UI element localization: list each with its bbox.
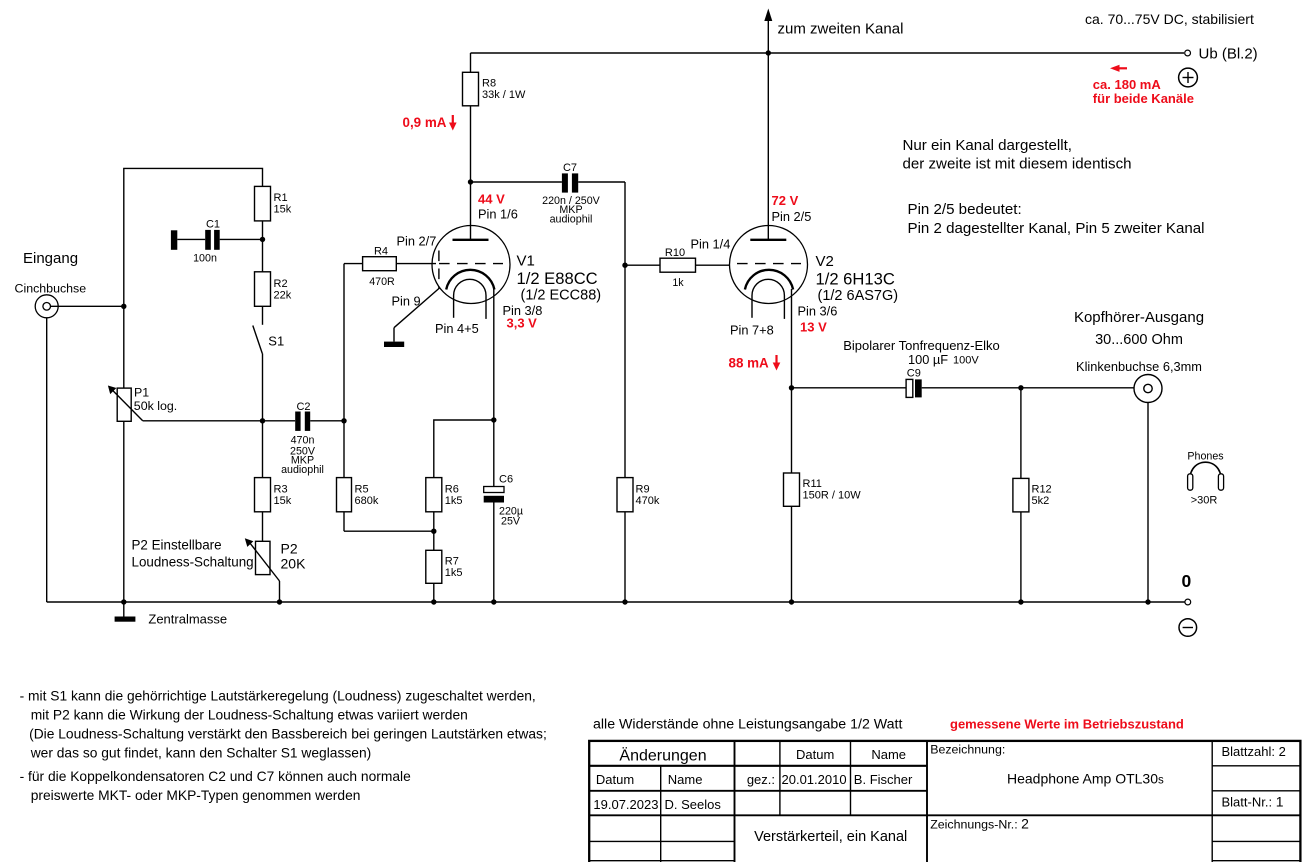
svg-text:1/2 6H13C: 1/2 6H13C xyxy=(816,270,895,289)
svg-text:preiswerte MKT- oder MKP-Typen: preiswerte MKT- oder MKP-Typen genommen … xyxy=(31,788,361,803)
svg-text:Kopfhörer-Ausgang: Kopfhörer-Ausgang xyxy=(1074,309,1204,326)
note resistor wattage xyxy=(593,717,902,733)
svg-text:100V: 100V xyxy=(953,354,979,366)
svg-text:Name: Name xyxy=(668,772,703,787)
svg-text:Pin 4+5: Pin 4+5 xyxy=(435,321,479,336)
svg-text:Pin 2/5: Pin 2/5 xyxy=(772,209,812,224)
svg-text:Pin 2/5 bedeutet:: Pin 2/5 bedeutet: xyxy=(908,201,1022,218)
svg-text:19.07.2023: 19.07.2023 xyxy=(593,797,658,812)
label P2 loudness xyxy=(132,538,254,570)
V1 grid (dashed) xyxy=(439,251,503,290)
V2 heater xyxy=(752,279,784,319)
svg-text:72 V: 72 V xyxy=(772,193,799,208)
labels tube V1 xyxy=(392,192,602,337)
label headphone output xyxy=(1074,309,1204,374)
svg-text:R5: R5 xyxy=(355,483,369,495)
svg-text:470n: 470n xyxy=(291,434,315,446)
svg-text:C6: C6 xyxy=(499,473,513,485)
svg-text:B. Fischer: B. Fischer xyxy=(854,772,913,787)
wire jack to ground rail xyxy=(1147,403,1149,603)
svg-text:Verstärkerteil, ein Kanal: Verstärkerteil, ein Kanal xyxy=(754,829,907,845)
svg-text:wer das so gut findet, kann de: wer das so gut findet, kann den Schalter… xyxy=(30,746,372,761)
svg-text:15k: 15k xyxy=(274,204,292,216)
node ground R12 xyxy=(1018,599,1023,604)
wire cathode bias line xyxy=(434,420,494,478)
ground Zentralmasse xyxy=(115,602,228,627)
svg-text:0,9 mA: 0,9 mA xyxy=(403,115,447,130)
title block frame xyxy=(589,741,1300,862)
resistor R9 xyxy=(617,265,660,602)
node C9/R12 xyxy=(1018,385,1023,390)
V2 grid (dashed) xyxy=(737,263,801,265)
svg-text:für beide Kanäle: für beide Kanäle xyxy=(1093,91,1194,106)
switch S1 xyxy=(253,326,284,421)
svg-text:44 V: 44 V xyxy=(478,192,505,207)
svg-text:Pin 1/4: Pin 1/4 xyxy=(691,237,731,252)
node V2 cathode out xyxy=(789,385,794,390)
svg-text:P1: P1 xyxy=(134,386,149,400)
svg-text:33k / 1W: 33k / 1W xyxy=(482,89,526,101)
svg-text:Cinchbuchse: Cinchbuchse xyxy=(15,282,87,296)
svg-text:88 mA: 88 mA xyxy=(729,356,770,371)
svg-text:Nur ein Kanal dargestellt,: Nur ein Kanal dargestellt, xyxy=(903,137,1072,154)
svg-text:13 V: 13 V xyxy=(800,320,827,335)
resistor R10 xyxy=(625,247,730,289)
terminal Ub open circle xyxy=(1185,50,1191,56)
title block texts xyxy=(593,743,1285,846)
tube V1 envelope xyxy=(432,226,510,304)
svg-text:Pin 3/6: Pin 3/6 xyxy=(798,304,838,319)
resistor R2 xyxy=(255,239,292,324)
svg-text:30...600 Ohm: 30...600 Ohm xyxy=(1095,332,1183,348)
V2 cathode xyxy=(745,270,793,388)
node below R8 xyxy=(468,179,473,184)
wire input top loop xyxy=(124,168,263,388)
svg-text:Bipolarer Tonfrequenz-Elko: Bipolarer Tonfrequenz-Elko xyxy=(843,338,1000,353)
svg-text:100 µF: 100 µF xyxy=(908,352,948,367)
svg-text:1k: 1k xyxy=(672,277,684,289)
note measured values (red) xyxy=(950,717,1184,732)
svg-text:20.01.2010: 20.01.2010 xyxy=(782,772,847,787)
wire Ub supply rail xyxy=(471,52,1185,54)
current arrow ca. 180 mA xyxy=(1093,65,1194,106)
svg-text:1k5: 1k5 xyxy=(445,567,463,579)
svg-text:(1/2 6AS7G): (1/2 6AS7G) xyxy=(818,288,899,304)
svg-text:der zweite ist mit diesem iden: der zweite ist mit diesem identisch xyxy=(903,156,1132,173)
svg-text:R10: R10 xyxy=(665,247,685,259)
svg-text:P2: P2 xyxy=(281,541,298,557)
V1 anode xyxy=(453,182,489,240)
phone jack xyxy=(1134,375,1162,403)
title block inner lines xyxy=(589,741,1300,862)
svg-text:Loudness-Schaltung: Loudness-Schaltung xyxy=(132,555,254,570)
label C9 elko xyxy=(843,338,1000,367)
node C1/R1/R2 xyxy=(260,237,265,242)
resistor R6 xyxy=(426,478,463,532)
label zum zweiten Kanal xyxy=(778,21,904,38)
svg-text:15k: 15k xyxy=(274,495,292,507)
svg-text:Pin 2/7: Pin 2/7 xyxy=(397,234,437,249)
svg-text:C7: C7 xyxy=(563,162,577,174)
svg-text:V2: V2 xyxy=(816,253,834,270)
node C2/R4/R5 xyxy=(341,418,346,423)
node S1/P1/C2/R3 xyxy=(260,418,265,423)
svg-text:Klinkenbuchse 6,3mm: Klinkenbuchse 6,3mm xyxy=(1076,359,1202,374)
resistor R11 xyxy=(784,388,862,602)
node ground P1 xyxy=(121,599,126,604)
svg-text:D. Seelos: D. Seelos xyxy=(665,797,722,812)
svg-text:Blattzahl: 2: Blattzahl: 2 xyxy=(1222,744,1286,759)
label Eingang xyxy=(15,250,87,296)
svg-text:470R: 470R xyxy=(369,276,395,288)
node C7/R9/R10 xyxy=(622,263,627,268)
V2 anode xyxy=(750,53,786,240)
svg-text:5k2: 5k2 xyxy=(1032,495,1050,507)
wire jack sleeve to ground rail xyxy=(46,318,48,602)
svg-text:C2: C2 xyxy=(296,401,310,413)
resistor R12 xyxy=(1013,388,1052,602)
node ground R11 xyxy=(789,599,794,604)
svg-text:R4: R4 xyxy=(374,246,388,258)
wire arrow to second channel xyxy=(764,9,772,54)
node at P1 input xyxy=(121,304,126,309)
minus terminal xyxy=(1179,619,1197,637)
svg-text:Bezeichnung:: Bezeichnung: xyxy=(930,743,1005,757)
svg-text:(Die Loudness-Schaltung verstä: (Die Loudness-Schaltung verstärkt den Ba… xyxy=(29,727,547,742)
svg-text:R11: R11 xyxy=(803,478,822,490)
svg-text:R3: R3 xyxy=(274,483,288,495)
svg-text:mit P2 kann die Wirkung der Lo: mit P2 kann die Wirkung der Loudness-Sch… xyxy=(31,708,468,723)
resistor R8 xyxy=(463,53,527,182)
svg-text:R7: R7 xyxy=(445,555,459,567)
wire output node line xyxy=(792,387,907,389)
svg-text:Datum: Datum xyxy=(596,772,634,787)
ground (pin 9) xyxy=(384,342,404,347)
svg-text:R6: R6 xyxy=(445,483,459,495)
svg-text:Name: Name xyxy=(871,747,906,762)
svg-text:0: 0 xyxy=(1182,571,1192,591)
plus terminal xyxy=(1179,68,1198,87)
svg-text:audiophil: audiophil xyxy=(281,464,324,476)
svg-text:Zeichnungs-Nr.: 2: Zeichnungs-Nr.: 2 xyxy=(930,816,1029,832)
svg-text:zum zweiten Kanal: zum zweiten Kanal xyxy=(778,21,904,38)
cinch jack xyxy=(35,295,58,318)
resistor R5 xyxy=(337,478,434,532)
note supply voltage xyxy=(1085,11,1254,27)
svg-text:100n: 100n xyxy=(193,253,217,265)
svg-text:Pin 9: Pin 9 xyxy=(392,294,421,309)
svg-text:ca. 70...75V DC, stabilisiert: ca. 70...75V DC, stabilisiert xyxy=(1085,11,1254,27)
svg-text:R1: R1 xyxy=(274,192,288,204)
svg-text:Pin 7+8: Pin 7+8 xyxy=(730,323,774,338)
svg-text:22k: 22k xyxy=(274,289,292,301)
svg-text:gemessene Werte im Betriebszus: gemessene Werte im Betriebszustand xyxy=(950,717,1184,732)
node ground C6 xyxy=(491,599,496,604)
svg-text:C1: C1 xyxy=(206,219,220,231)
V1 heater xyxy=(454,279,486,319)
resistor R1 xyxy=(255,186,292,239)
resistor R7 xyxy=(426,531,463,602)
wire jack to P1 xyxy=(51,305,124,307)
svg-text:Pin 1/6: Pin 1/6 xyxy=(478,207,518,222)
headphones icon xyxy=(1187,451,1223,507)
svg-text:P2 Einstellbare: P2 Einstellbare xyxy=(132,538,222,553)
svg-text:ca. 180 mA: ca. 180 mA xyxy=(1093,77,1162,92)
svg-text:S1: S1 xyxy=(268,334,284,349)
resistor R3 xyxy=(255,421,292,542)
potentiometer P1 xyxy=(108,386,177,603)
svg-text:gez.:: gez.: xyxy=(747,772,775,787)
svg-text:470k: 470k xyxy=(636,495,660,507)
svg-text:Blatt-Nr.: 1: Blatt-Nr.: 1 xyxy=(1222,794,1284,810)
label Ub (Bl.2) xyxy=(1199,46,1258,63)
capacitor C2 xyxy=(263,401,345,476)
svg-text:R9: R9 xyxy=(636,483,650,495)
svg-text:alle Widerstände ohne Leistung: alle Widerstände ohne Leistungsangabe 1/… xyxy=(593,717,902,733)
svg-text:R2: R2 xyxy=(274,278,288,290)
capacitor C7 xyxy=(471,162,626,226)
capacitor C1 xyxy=(171,219,263,265)
note loudness text xyxy=(20,689,547,804)
tube V2 envelope xyxy=(730,226,808,304)
svg-text:680k: 680k xyxy=(355,495,379,507)
svg-text:Pin 2 dagestellter Kanal, Pin: Pin 2 dagestellter Kanal, Pin 5 zweiter … xyxy=(908,220,1205,237)
svg-text:- für die Koppelkondensatoren: - für die Koppelkondensatoren C2 und C7 … xyxy=(20,769,411,784)
capacitor C6 xyxy=(484,420,523,602)
node junction top rail xyxy=(766,50,771,55)
wire R4 drop to C2 node xyxy=(343,264,345,478)
svg-text:R8: R8 xyxy=(482,78,496,90)
node ground R7 xyxy=(431,599,436,604)
V1 cathode xyxy=(446,270,494,420)
node cathode/C6 xyxy=(491,417,496,422)
svg-text:Datum: Datum xyxy=(796,747,834,762)
node R5/R6/R7 xyxy=(431,529,436,534)
svg-text:Änderungen: Änderungen xyxy=(619,747,706,765)
svg-text:150R / 10W: 150R / 10W xyxy=(803,490,862,502)
svg-text:1/2 E88CC: 1/2 E88CC xyxy=(517,269,598,288)
wire P1 wiper xyxy=(143,420,263,422)
svg-text:50k log.: 50k log. xyxy=(134,399,177,413)
wire C7 to node xyxy=(624,182,626,265)
svg-text:Zentralmasse: Zentralmasse xyxy=(148,612,227,627)
svg-text:Phones: Phones xyxy=(1187,451,1223,463)
svg-text:(1/2 ECC88): (1/2 ECC88) xyxy=(521,288,602,304)
svg-text:V1: V1 xyxy=(517,253,535,270)
svg-text:audiophil: audiophil xyxy=(550,214,593,226)
node ground R9 xyxy=(622,599,627,604)
notes only one channel xyxy=(903,137,1205,237)
svg-text:1k5: 1k5 xyxy=(445,495,463,507)
svg-text:>30R: >30R xyxy=(1191,495,1218,507)
labels tube V2 xyxy=(691,193,899,338)
resistor R4 xyxy=(344,246,436,289)
svg-text:- mit S1 kann die gehörrichtig: - mit S1 kann die gehörrichtige Lautstär… xyxy=(20,689,536,704)
node ground P2 xyxy=(277,599,282,604)
svg-text:Eingang: Eingang xyxy=(23,250,78,267)
V1 shield pin 9 wire xyxy=(394,289,439,342)
potentiometer P2 xyxy=(245,538,306,602)
svg-text:Ub (Bl.2): Ub (Bl.2) xyxy=(1199,46,1258,63)
capacitor C9 xyxy=(906,367,1144,397)
svg-text:20K: 20K xyxy=(281,556,307,572)
svg-text:R12: R12 xyxy=(1032,484,1052,496)
svg-text:3,3 V: 3,3 V xyxy=(507,316,538,331)
label 0 xyxy=(1182,571,1192,591)
node ground jack xyxy=(1145,599,1150,604)
ground rail xyxy=(47,601,1185,603)
current 0,9 mA xyxy=(403,115,457,131)
svg-text:25V: 25V xyxy=(501,516,521,528)
svg-text:Headphone Amp OTL30s: Headphone Amp OTL30s xyxy=(1007,771,1164,787)
current 88 mA xyxy=(729,355,781,371)
svg-text:C9: C9 xyxy=(907,367,921,379)
terminal 0 open circle xyxy=(1185,599,1191,605)
